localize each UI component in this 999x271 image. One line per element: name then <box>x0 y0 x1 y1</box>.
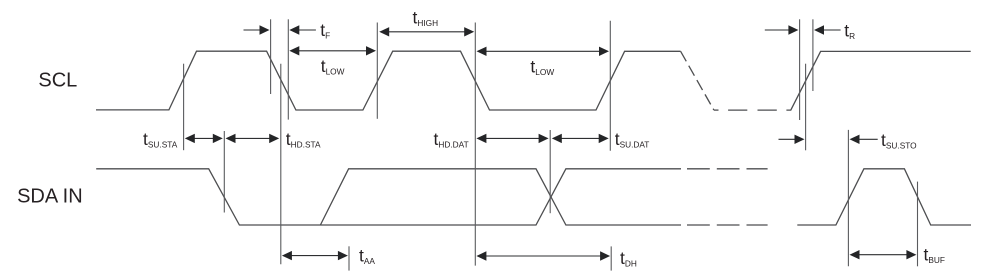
wire SDA rise at t_AA, high rail and crossover fall <box>320 169 681 225</box>
svg-text:tBUF: tBUF <box>924 245 945 265</box>
wire SDA dashed high rail seg2 <box>717 168 740 170</box>
wire SDA dashed high rail seg3 <box>747 168 768 170</box>
arrow t_SU.STO measure right-pointing <box>779 138 796 140</box>
node marker bar at SDA start fall (t_BUF right) <box>917 182 919 267</box>
node marker bar at SCL first rising edge (t_SU.STA left) <box>183 64 185 151</box>
arrow t_R measure left-pointing <box>823 29 841 31</box>
svg-text:SCL: SCL <box>38 70 77 92</box>
wire SDA dashed low rail seg1 <box>687 224 710 226</box>
svg-text:tLOW: tLOW <box>530 57 554 77</box>
wire SCL dashed low segment 3 <box>758 109 777 111</box>
wire SDA dashed low rail seg3 <box>747 224 768 226</box>
arrow t_HD.DAT double <box>485 137 540 139</box>
arrow t_LOW second double <box>485 50 601 52</box>
wire SDA stop/start pulse right portion <box>797 169 971 225</box>
svg-text:tLOW: tLOW <box>321 56 345 76</box>
node marker bar at SCL second rise (t_LOW/t_HIGH divider) <box>376 23 378 119</box>
arrow t_AA double <box>291 255 340 257</box>
node marker bar at SCL last rise midpoint (t_SU.STO left) <box>805 64 807 151</box>
arrow t_SU.STA double <box>193 137 215 139</box>
arrow t_LOW first double <box>298 50 368 52</box>
svg-text:tSU.STO: tSU.STO <box>881 130 917 150</box>
arrow t_SU.DAT double <box>560 137 600 139</box>
svg-text:tF: tF <box>320 20 330 40</box>
arrow t_HD.STA double <box>234 137 271 139</box>
wire SCL dashed low segment 2 <box>728 109 747 111</box>
node marker bar t_R left <box>799 19 801 120</box>
svg-text:tR: tR <box>844 20 855 40</box>
node marker bar SCL fall midpoint long (t_HD.STA / t_AA left) <box>280 64 282 265</box>
arrow t_SU.STO measure left-pointing <box>858 138 878 140</box>
svg-text:tAA: tAA <box>359 246 375 266</box>
wire SDA high rail, falling edge, low rail and crossover rise <box>96 169 681 225</box>
svg-text:tHD.STA: tHD.STA <box>286 129 321 149</box>
node marker bar t_F right <box>287 19 289 119</box>
arrow t_F measure left-pointing <box>298 29 316 31</box>
node marker bar at SCL second fall long (t_HIGH/t_LOW, t_HD.DAT, t_DH left) <box>474 23 476 266</box>
wire SDA dashed high rail seg1 <box>687 168 710 170</box>
wire SCL solid right portion with rising edge <box>786 51 970 110</box>
arrow t_R measure right-pointing <box>765 29 789 31</box>
svg-text:tSU.STA: tSU.STA <box>143 129 178 149</box>
node marker bar t_DH right <box>610 246 612 270</box>
arrow t_HIGH double <box>388 31 466 33</box>
arrow t_BUF double <box>858 254 908 256</box>
svg-text:tHIGH: tHIGH <box>413 8 439 28</box>
node marker bar at SDA crossover (t_HD.DAT/t_SU.DAT divider) <box>549 130 551 213</box>
node marker bar at SCL third rise (t_LOW/t_SU.DAT) <box>609 21 611 151</box>
svg-text:tHD.DAT: tHD.DAT <box>434 129 469 149</box>
svg-text:tSU.DAT: tSU.DAT <box>615 129 650 149</box>
node marker bar at SDA stop rise (t_SU.STO right / t_BUF left) <box>847 130 849 266</box>
node marker bar t_F left <box>270 19 272 94</box>
arrow t_F measure right-pointing <box>244 29 261 31</box>
wire SCL dashed falling edge <box>681 51 714 110</box>
node marker bar t_R right <box>812 19 814 91</box>
node marker bar at SDA fall midpoint (t_SU.STA/t_HD.STA divider) <box>223 131 225 213</box>
wire SCL dashed low segment 1 <box>714 109 719 111</box>
svg-text:SDA IN: SDA IN <box>17 186 83 208</box>
svg-text:tDH: tDH <box>620 248 637 268</box>
wire SCL waveform solid left portion <box>96 51 681 110</box>
node marker bar t_AA right <box>348 246 350 270</box>
wire SDA dashed low rail seg2 <box>717 224 740 226</box>
arrow t_DH double <box>485 255 602 257</box>
